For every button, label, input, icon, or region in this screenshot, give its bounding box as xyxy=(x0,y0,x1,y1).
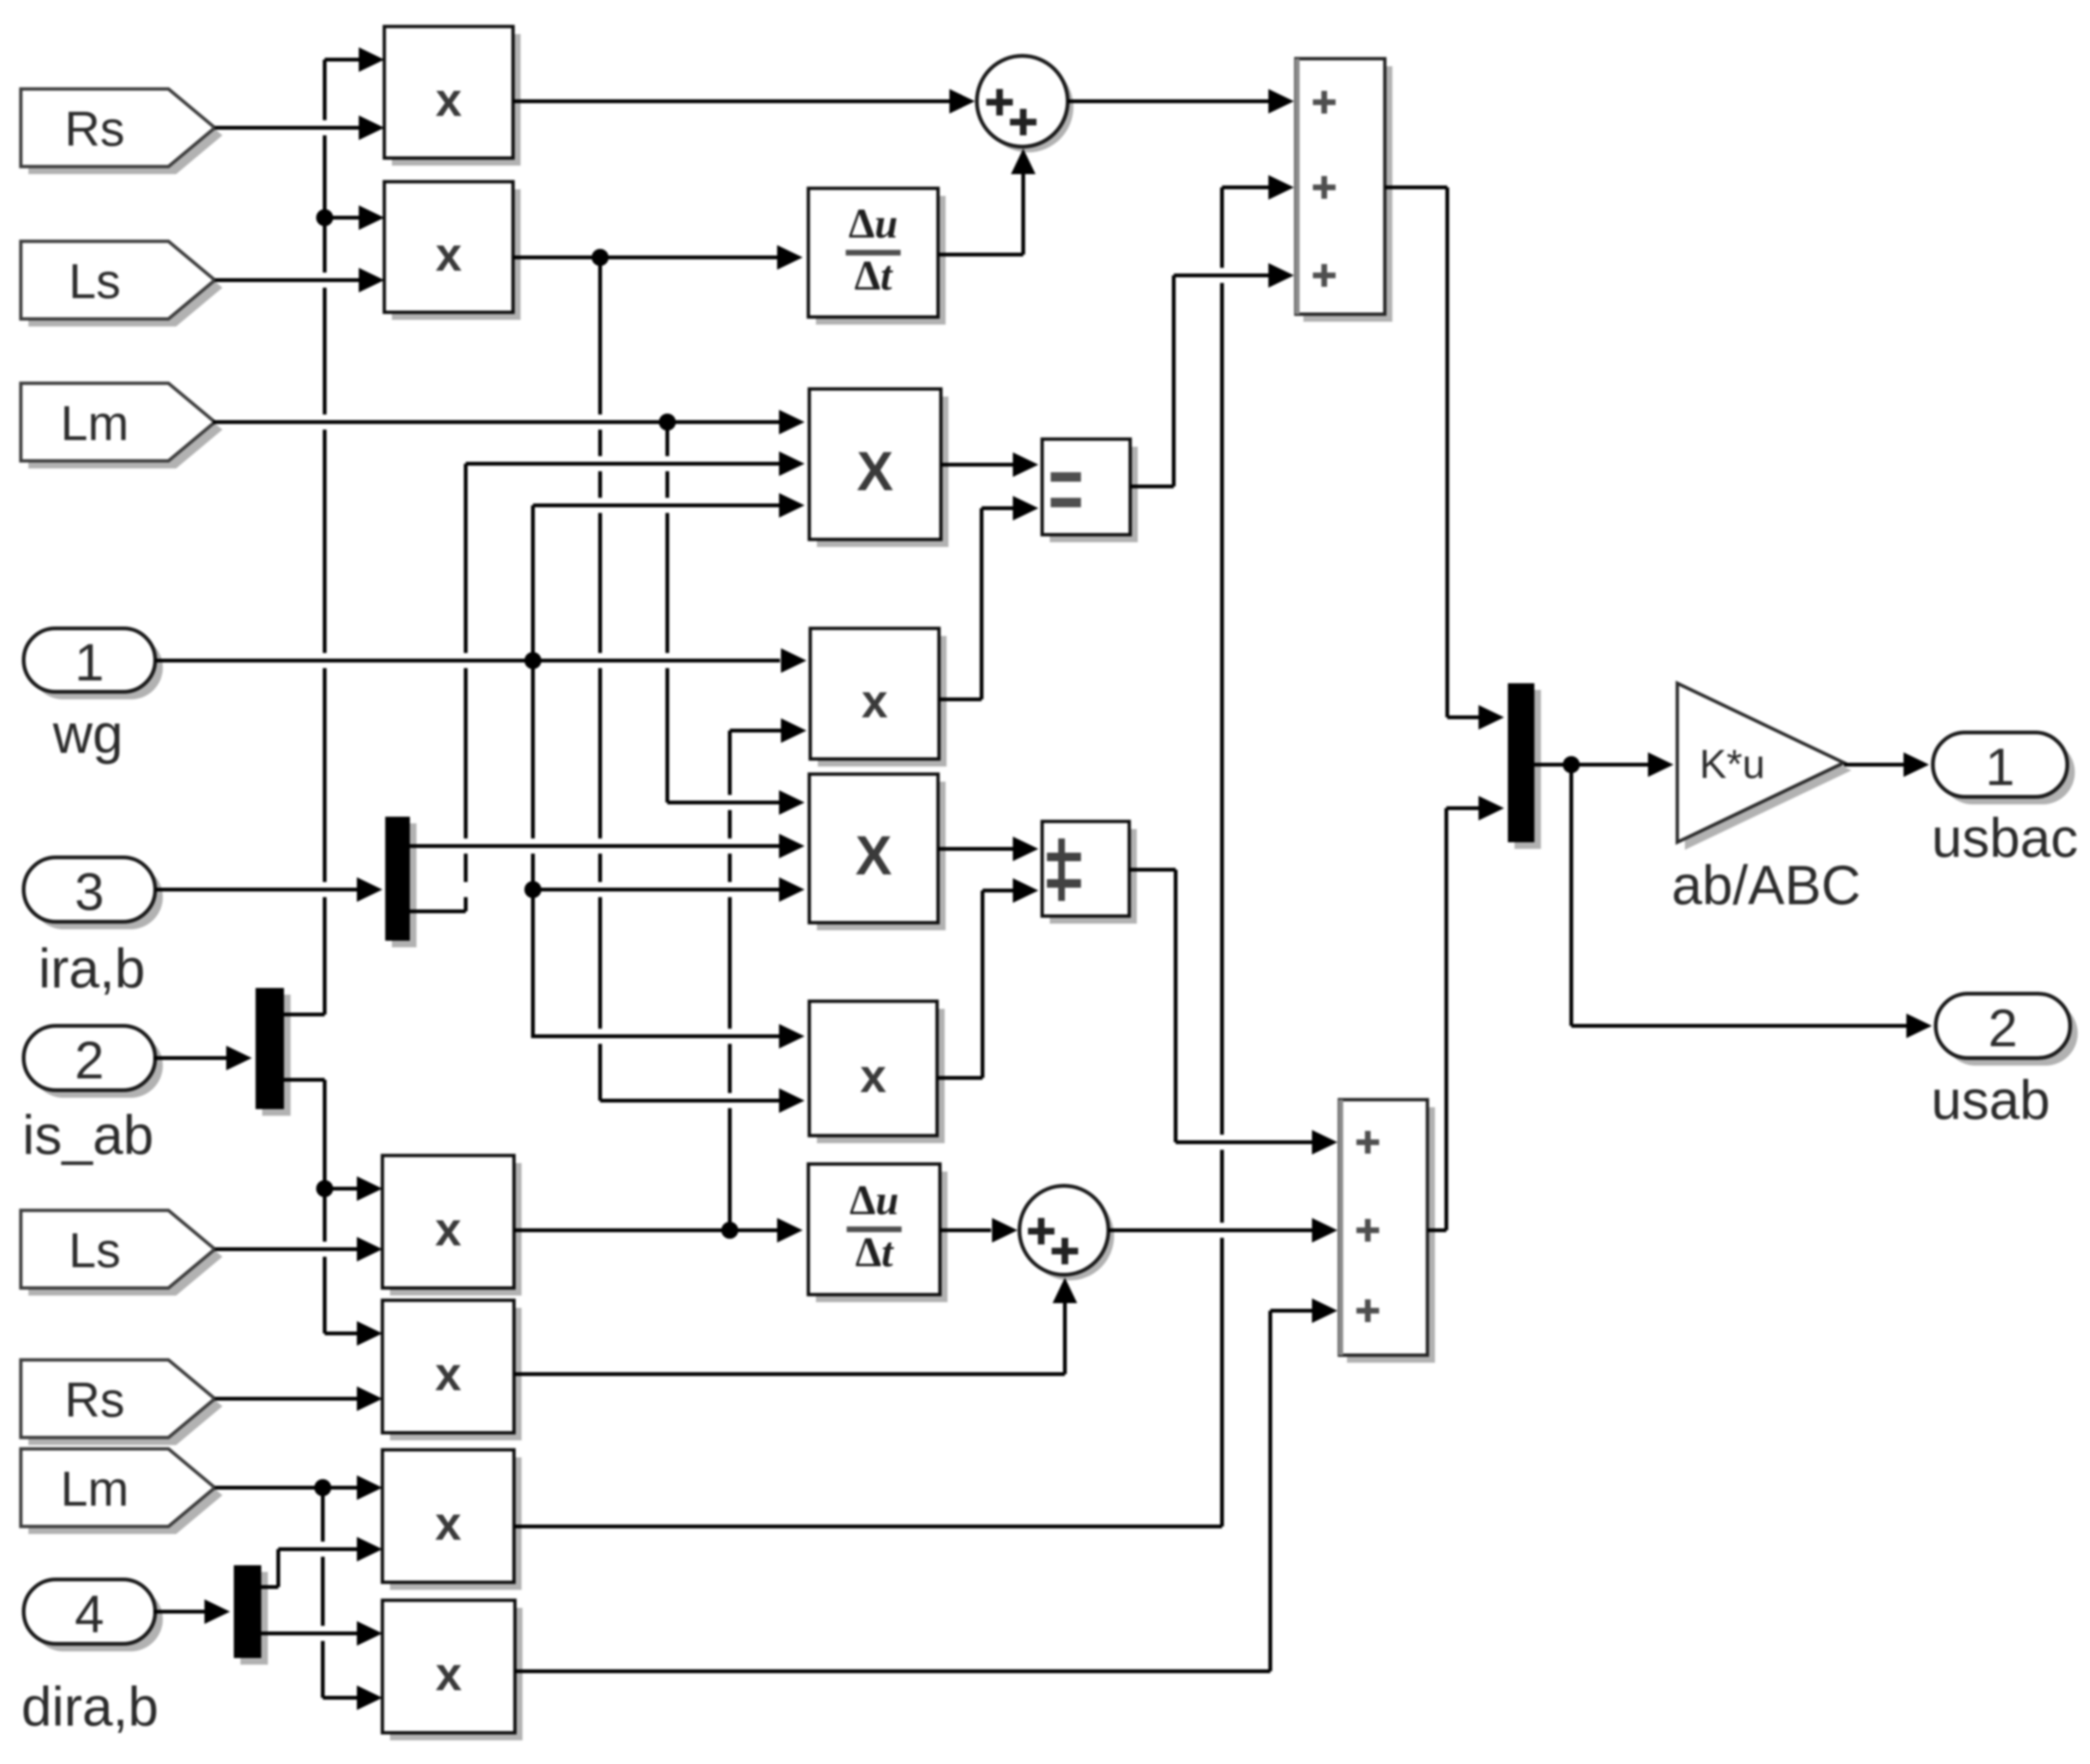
From tag Ls (lower) xyxy=(21,1210,222,1296)
mux M4 (output mux) xyxy=(1508,683,1541,849)
svg-text:x: x xyxy=(435,1203,462,1256)
wire S2 out up to mux M4 in2 xyxy=(1427,796,1504,1232)
svg-text:usbac: usbac xyxy=(1932,808,2079,870)
svg-text:dira,b: dira,b xyxy=(21,1677,158,1738)
wire inport2 to demux M2 xyxy=(153,1046,252,1070)
product block P9 (Lm*dirb) xyxy=(382,1600,522,1740)
From tag Rs (top) xyxy=(21,89,222,174)
svg-text:x: x xyxy=(435,1497,462,1550)
gain block K*u (ab/ABC) xyxy=(1672,683,1861,917)
wire gain out to outport usbac xyxy=(1844,752,1929,777)
wire Rs(top) to P1 in2 xyxy=(215,115,384,140)
svg-text:ab/ABC: ab/ABC xyxy=(1672,856,1861,917)
wire Lm(lower) to P8 in1, junction x341 xyxy=(215,1475,382,1500)
svg-text:Rs: Rs xyxy=(64,1373,125,1428)
product block P8 (Lm*dira) xyxy=(382,1450,522,1590)
Outport 2 usab xyxy=(1931,994,2078,1132)
Outport 1 usbac xyxy=(1932,732,2079,870)
svg-text:is_ab: is_ab xyxy=(23,1105,154,1167)
wire P7 out up into C2 bottom xyxy=(514,1278,1077,1376)
wire C2 out to S2 in2 xyxy=(1108,1218,1337,1243)
wire inport3 to demux M1 xyxy=(155,877,382,902)
svg-text:1: 1 xyxy=(1985,737,2014,797)
svg-text:Δt: Δt xyxy=(855,253,894,299)
divide block E1 (=) xyxy=(1042,439,1138,542)
wire Lm(top) to X1 in1, junction x705 xyxy=(213,410,805,434)
svg-text:2: 2 xyxy=(1988,998,2017,1058)
demux M1 (ira,b) xyxy=(385,817,416,947)
product block P1 (Rs*isa) xyxy=(384,26,521,166)
wire P6 out to du/dt lower, junction x771 xyxy=(514,1218,803,1243)
wire E1 out up to S1 in3 xyxy=(1130,263,1294,488)
svg-text:Ls: Ls xyxy=(69,1224,121,1279)
svg-text:x: x xyxy=(435,228,462,281)
wire isa trunk (vertical x343) with branches to P1,P2 xyxy=(316,47,384,1014)
svg-text:x: x xyxy=(861,675,888,728)
sum block S2 (vertical, 3 inputs +++) xyxy=(1338,1100,1435,1363)
wire P9 out up to S2 in3 xyxy=(515,1298,1337,1673)
svg-text:Δu: Δu xyxy=(848,201,897,247)
sum circle C2 (++) xyxy=(1019,1186,1114,1280)
svg-text:2: 2 xyxy=(75,1031,104,1090)
svg-text:Δu: Δu xyxy=(849,1177,898,1224)
wire du/dt lower out to C2 xyxy=(940,1218,1018,1243)
svg-text:Lm: Lm xyxy=(61,397,129,451)
wire P2 out to du/dt upper, junction x634 xyxy=(513,245,803,270)
svg-text:Rs: Rs xyxy=(64,102,125,157)
wire branch x341 down to P9 in2 xyxy=(321,1488,382,1710)
wire M4 out to gain, junction xyxy=(1534,752,1674,777)
Inport 1 wg xyxy=(24,628,163,766)
svg-text:4: 4 xyxy=(75,1584,104,1644)
Inport 4 dira,b xyxy=(21,1579,163,1738)
product block P4 (wg*...) xyxy=(810,628,947,767)
wire branch x771 up to P4 in2 xyxy=(728,718,806,1230)
product block P2 (Ls*isa) xyxy=(384,182,521,320)
wire Rs(lower) to P7 in2 xyxy=(215,1386,382,1411)
wire M2 bottom out down x343 to P6 in1 and P7 in1 xyxy=(284,1078,382,1346)
wire du/dt upper out, up into C1 bottom xyxy=(938,149,1036,256)
product block X2 (3-input, lower) xyxy=(809,774,946,930)
svg-text:Δt: Δt xyxy=(856,1229,895,1276)
sum block S1 (vertical, 3 inputs +++) xyxy=(1295,59,1392,322)
svg-text:X: X xyxy=(856,825,893,887)
svg-text:x: x xyxy=(435,1348,462,1401)
wire M2 top out to isa trunk xyxy=(284,1013,325,1016)
wire P1 out to sum circle C1 xyxy=(513,89,975,114)
From tag Ls (top) xyxy=(21,241,222,326)
wire Ls(lower) to P6 in2 xyxy=(215,1237,382,1261)
derivative block du/dt (upper) xyxy=(808,188,946,325)
wire X1 out to E1 in1 xyxy=(941,452,1038,477)
svg-text:wg: wg xyxy=(52,704,123,766)
svg-text:3: 3 xyxy=(75,862,104,922)
derivative block du/dt (lower) xyxy=(808,1164,948,1302)
svg-text:X: X xyxy=(857,441,894,503)
svg-text:x: x xyxy=(435,74,462,127)
sum circle C1 (++) xyxy=(977,56,1073,152)
wire Ls(top) to P2 in2 xyxy=(215,268,384,292)
svg-text:K*u: K*u xyxy=(1699,742,1764,787)
svg-text:1: 1 xyxy=(75,632,104,692)
wire M3 top out up to P8 in2 xyxy=(261,1537,382,1589)
wire inport4 to demux M3 xyxy=(153,1599,230,1624)
wire M1 top out to X2 in2 xyxy=(410,834,805,858)
product block P5 (wg*Lm*...) xyxy=(809,1001,945,1143)
wire P8 out up tall to S1 in2 xyxy=(514,175,1294,1528)
product block X1 (3-input, upper) xyxy=(809,389,948,547)
svg-text:ira,b: ira,b xyxy=(39,939,146,1000)
svg-text:x: x xyxy=(435,1648,462,1701)
product block P6 (Ls*isb) xyxy=(382,1155,522,1296)
wire M3 bottom out to P9 in1 xyxy=(261,1621,382,1646)
wire S1 out down to mux M4 in1 xyxy=(1385,185,1504,730)
wire C1 out to S1 in1 xyxy=(1068,89,1294,114)
divide block E2 (&#247;) xyxy=(1042,821,1137,924)
demux M3 (dira,b) xyxy=(234,1565,268,1665)
wire branch x634 down to P5 in2 xyxy=(598,257,805,1113)
svg-text:Lm: Lm xyxy=(61,1462,129,1517)
wire wg branch x563 down to X2 in3 and P5 in1 xyxy=(524,661,805,1049)
demux M2 (is_ab) xyxy=(256,988,291,1116)
product block P7 (Rs*isb) xyxy=(382,1300,522,1440)
wire wg to P4 in1, junctions x563 xyxy=(155,648,806,673)
From tag Rs (lower) xyxy=(21,1360,222,1445)
wire P5 out up to E2 in2 xyxy=(937,878,1038,1080)
From tag Lm (top) xyxy=(21,383,222,468)
svg-text:x: x xyxy=(860,1050,887,1102)
wire branch down to outport usab xyxy=(1569,765,1932,1038)
wire branch x705 down to X2 in1 xyxy=(665,422,805,815)
svg-text:Ls: Ls xyxy=(69,255,121,309)
svg-text:usab: usab xyxy=(1931,1070,2050,1132)
wire P4 out up to E1 in2 xyxy=(939,496,1038,701)
wire E2 out down to S2 in1 xyxy=(1129,868,1337,1155)
wire wg branch x563 up to X1 in3 xyxy=(531,493,805,661)
Inport 2 is_ab xyxy=(23,1026,163,1167)
Inport 3 ira,b xyxy=(24,857,163,1000)
wire M1 bottom out up to X1 in2 xyxy=(410,451,805,913)
wire X2 out to E2 in1 xyxy=(938,837,1038,861)
From tag Lm (lower) xyxy=(21,1449,222,1534)
